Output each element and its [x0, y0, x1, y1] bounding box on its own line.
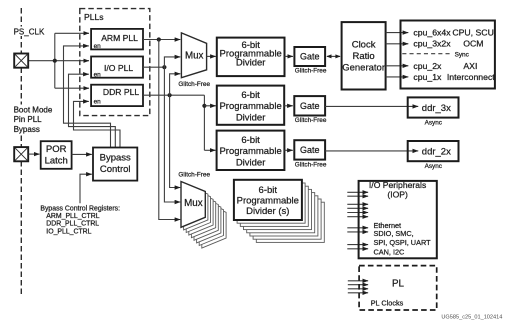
- wire PS_CLK horizontal to I/O PLL: [28, 60, 89, 62]
- bypass control box: [93, 148, 137, 181]
- wire divider 3 to gate 3: [284, 149, 292, 151]
- svg-text:SDIO, SMC,: SDIO, SMC,: [374, 229, 414, 238]
- wire crg to cpu_2x: [386, 65, 409, 67]
- wire gate 3 to ddr_2x: [325, 150, 418, 152]
- node DDR output junction: [168, 93, 172, 97]
- svg-text:en: en: [94, 43, 102, 50]
- svg-text:Interconnect: Interconnect: [447, 72, 495, 82]
- wire Mux output to divider 1: [207, 55, 216, 57]
- node ARM output junction: [157, 37, 161, 41]
- divider 2 (6-bit programmable divider): [217, 86, 284, 125]
- label PLLs: [84, 12, 104, 22]
- pll ARM PLL: [91, 29, 143, 50]
- dashed boundary line (left margin): [20, 8, 22, 296]
- wire I/O PLL en from Bypass Control: [69, 74, 116, 147]
- svg-text:6-bit: 6-bit: [241, 135, 260, 146]
- wire PS_CLK vertical branch: [54, 33, 56, 88]
- watermark UG585_c25_01_102414: [441, 314, 502, 320]
- svg-text:Programmable: Programmable: [219, 101, 281, 112]
- wire ARM PLL en from Bypass Control: [64, 46, 111, 147]
- svg-text:Gate: Gate: [300, 101, 320, 111]
- divider stack (6-bit programmable dividers): [234, 180, 324, 243]
- svg-text:(IOP): (IOP): [387, 190, 408, 200]
- label Glitch-Free (upper mux): [178, 81, 210, 88]
- wire DDR PLL en from Bypass Control: [74, 101, 121, 147]
- svg-text:Glitch-Free: Glitch-Free: [295, 161, 327, 168]
- node ddr divider junction: [202, 104, 206, 108]
- svg-text:Sync: Sync: [455, 51, 470, 58]
- IOP arrows (clock inputs): [347, 192, 368, 249]
- svg-text:CPU, SCU,: CPU, SCU,: [452, 28, 496, 38]
- gate 1: [294, 47, 326, 75]
- ddr_2x clock box: [408, 141, 459, 170]
- svg-text:I/O PLL: I/O PLL: [104, 63, 133, 73]
- wire I/O output down to lower Mux: [164, 67, 180, 202]
- svg-text:Ratio: Ratio: [353, 51, 375, 62]
- svg-text:Gate: Gate: [300, 145, 320, 155]
- input pad Boot Mode (crossed box): [14, 147, 28, 161]
- node I/O output junction: [162, 65, 166, 69]
- wire ARM output down to lower Mux: [159, 40, 181, 220]
- PLLs dashed group box: [80, 9, 150, 116]
- svg-text:Clock: Clock: [352, 39, 376, 50]
- por latch box: [41, 141, 72, 169]
- svg-text:cpu_3x2x: cpu_3x2x: [413, 39, 451, 49]
- divider 3 (6-bit programmable divider): [217, 131, 285, 170]
- sync dashed divider inside cpu box: [402, 51, 469, 58]
- svg-text:Generator: Generator: [342, 62, 385, 73]
- wire I/O PLL output: [143, 66, 164, 68]
- svg-text:Glitch-Free: Glitch-Free: [178, 171, 210, 178]
- wire DDR output up into Mux: [170, 74, 181, 95]
- svg-text:Glitch-Free: Glitch-Free: [178, 81, 210, 88]
- wire crg to cpu_6x4x: [386, 32, 409, 34]
- svg-text:ARM_PLL_CTRL: ARM_PLL_CTRL: [46, 213, 99, 220]
- PL dashed box: [359, 266, 437, 310]
- wire boot mode pad to por latch: [28, 153, 39, 155]
- svg-text:Programmable: Programmable: [237, 195, 299, 206]
- svg-text:ddr_2x: ddr_2x: [422, 147, 451, 158]
- svg-text:Bypass: Bypass: [100, 153, 131, 164]
- wire I/O output up into Mux: [164, 57, 180, 67]
- svg-text:cpu_6x4x: cpu_6x4x: [413, 28, 451, 38]
- gate 2: [294, 96, 327, 124]
- svg-text:cpu_2x: cpu_2x: [413, 61, 442, 71]
- wire por latch to bypass control: [72, 153, 92, 155]
- svg-text:en: en: [94, 71, 102, 78]
- pll I/O PLL: [91, 57, 143, 79]
- input pad PS_CLK (crossed box): [14, 54, 28, 68]
- svg-text:UG585_c25_01_102414: UG585_c25_01_102414: [441, 314, 502, 320]
- svg-text:Divider (s): Divider (s): [246, 206, 289, 217]
- ddr_3x clock box: [408, 97, 459, 126]
- label Bypass Control Registers: [40, 206, 120, 236]
- svg-text:Glitch-Free: Glitch-Free: [295, 117, 327, 124]
- svg-text:Async: Async: [425, 163, 443, 170]
- svg-text:SPI, QSPI, UART: SPI, QSPI, UART: [374, 238, 432, 247]
- svg-text:en: en: [94, 98, 102, 105]
- svg-text:I/O Peripherals: I/O Peripherals: [369, 180, 426, 190]
- svg-text:OCM: OCM: [463, 39, 483, 49]
- svg-text:cpu_1x: cpu_1x: [413, 72, 442, 82]
- wire DDR PLL output: [143, 94, 204, 96]
- wire into 2nd divider: [204, 105, 215, 107]
- io peripherals box: [359, 180, 437, 258]
- svg-text:6-bit: 6-bit: [259, 185, 278, 196]
- svg-text:Bypass: Bypass: [14, 125, 40, 134]
- svg-text:Latch: Latch: [45, 155, 68, 166]
- wire ARM PLL output to Mux: [143, 39, 180, 41]
- svg-text:PL: PL: [392, 279, 405, 290]
- mux lower stacked glitch-free mux: [181, 182, 226, 249]
- svg-text:6-bit: 6-bit: [241, 90, 260, 101]
- svg-text:Divider: Divider: [236, 157, 266, 168]
- clock ratio generator: [342, 22, 386, 89]
- svg-text:CAN, I2C: CAN, I2C: [374, 248, 405, 257]
- svg-text:Control: Control: [100, 164, 131, 175]
- wire divider 1 to gate 1: [285, 55, 294, 57]
- PL arrows (clock inputs): [348, 281, 368, 293]
- wire crg to cpu_1x: [386, 76, 409, 78]
- wire DDR feed to ddr dividers: [203, 95, 205, 150]
- label Glitch-Free (lower mux): [178, 171, 210, 178]
- svg-text:Glitch-Free: Glitch-Free: [295, 68, 327, 75]
- wire into 3rd divider: [204, 149, 215, 151]
- wire DDR output down to lower Mux: [170, 95, 181, 187]
- svg-text:Pin PLL: Pin PLL: [14, 115, 43, 124]
- wire to ARM PLL clock input: [55, 32, 89, 34]
- mux upper glitch-free mux: [181, 33, 206, 78]
- node PS_CLK junction: [53, 59, 57, 63]
- wire divider 2 to gate 2: [284, 105, 293, 107]
- svg-text:PS_CLK: PS_CLK: [14, 28, 45, 37]
- wire bypass control registers to bypass control: [80, 174, 92, 203]
- label Boot Mode Pin PLL Bypass: [13, 105, 53, 134]
- pll DDR PLL: [91, 85, 143, 106]
- svg-text:PL Clocks: PL Clocks: [371, 298, 404, 307]
- cpu clock domain box: [401, 21, 497, 89]
- svg-text:Bypass Control Registers:: Bypass Control Registers:: [40, 206, 120, 213]
- svg-text:Gate: Gate: [300, 51, 320, 61]
- svg-text:PLLs: PLLs: [84, 12, 104, 22]
- svg-text:POR: POR: [46, 144, 67, 155]
- svg-text:ddr_3x: ddr_3x: [422, 103, 451, 114]
- svg-text:Divider: Divider: [236, 112, 266, 123]
- svg-text:Async: Async: [425, 119, 443, 126]
- svg-text:DDR_PLL_CTRL: DDR_PLL_CTRL: [46, 221, 99, 228]
- wire gate 2 to ddr_3x: [325, 105, 418, 107]
- svg-text:Divider: Divider: [236, 58, 266, 69]
- svg-text:IO_PLL_CTRL: IO_PLL_CTRL: [46, 229, 91, 236]
- svg-text:AXI: AXI: [463, 61, 477, 71]
- svg-text:ARM PLL: ARM PLL: [101, 33, 138, 43]
- svg-text:Mux: Mux: [185, 51, 204, 62]
- gate 3: [294, 140, 327, 168]
- svg-text:Boot Mode: Boot Mode: [14, 106, 53, 115]
- wire crg to cpu_3x2x: [386, 43, 409, 45]
- label PS_CLK: [13, 27, 46, 37]
- svg-text:Programmable: Programmable: [219, 146, 281, 157]
- svg-text:DDR PLL: DDR PLL: [103, 87, 140, 97]
- wire gate 1 to clock ratio generator (bidirectional): [326, 54, 340, 58]
- divider 1 (6-bit programmable divider): [217, 38, 285, 77]
- wire to DDR PLL clock input: [55, 87, 89, 89]
- svg-text:Mux: Mux: [184, 198, 203, 209]
